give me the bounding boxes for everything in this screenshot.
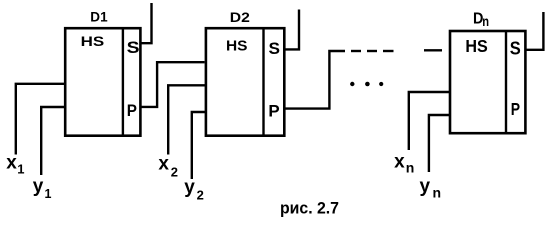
svg-text:y: y <box>184 177 195 198</box>
wire S2 output of D2 (right then up) <box>283 10 299 50</box>
wire input yn to Dn <box>429 115 451 172</box>
svg-text:n: n <box>433 184 442 200</box>
wire dashed borrow line segment 2 <box>367 50 377 52</box>
svg-text:D2: D2 <box>230 9 250 25</box>
svg-text:x: x <box>394 152 405 173</box>
svg-text:HS: HS <box>465 36 487 56</box>
svg-text:HS: HS <box>226 37 248 54</box>
ellipsis dot 3 <box>379 82 383 86</box>
svg-text:S: S <box>269 39 281 58</box>
wire input xn to Dn <box>409 92 451 150</box>
half-subtractor U1 (block D1) box <box>65 28 140 136</box>
half-subtractor Un divider (pin strip) <box>505 30 507 134</box>
svg-text:y: y <box>33 176 44 197</box>
svg-text:1: 1 <box>45 187 52 201</box>
wire S1 output of D1 (right then up) <box>140 3 152 43</box>
ellipsis dot 2 <box>365 82 370 87</box>
svg-text:x: x <box>158 154 169 175</box>
half-subtractor U2 divider (pin strip) <box>262 27 264 136</box>
svg-text:n: n <box>406 160 415 176</box>
ellipsis dot 1 <box>350 82 354 86</box>
svg-text:P: P <box>511 99 520 119</box>
half-subtractor U2 (block D2) box <box>206 28 284 136</box>
wire input x1 to D1 <box>16 84 65 155</box>
svg-text:D1: D1 <box>90 9 108 24</box>
wire dashed borrow line segment 4 (into Dn) <box>424 49 442 51</box>
svg-text:P: P <box>127 101 137 120</box>
svg-text:S: S <box>127 38 140 57</box>
svg-text:y: y <box>420 176 431 197</box>
half-subtractor U1 divider (pin strip) <box>122 27 124 136</box>
svg-text:HS: HS <box>81 34 105 49</box>
wire input y2 to D2 <box>192 112 206 179</box>
half-subtractor Un (block Dn) box <box>450 31 525 133</box>
svg-text:рис. 2.7: рис. 2.7 <box>280 199 339 217</box>
wire Sn output of Dn (right then up) <box>525 12 544 50</box>
wire input y1 to D1 <box>41 107 65 175</box>
svg-text:n: n <box>482 13 489 29</box>
svg-text:2: 2 <box>171 164 178 179</box>
svg-text:1: 1 <box>17 162 24 177</box>
wire input x2 to D2 <box>168 85 206 154</box>
svg-text:x: x <box>6 153 17 174</box>
svg-text:P: P <box>268 102 279 121</box>
wire dashed borrow line segment 3 <box>383 50 394 52</box>
wire P2 output of D2 (right then up to dashed line) <box>283 51 345 109</box>
wire dashed borrow line segment 1 <box>351 50 361 52</box>
svg-text:2: 2 <box>197 188 204 203</box>
wire P1 output of D1 to D2 input <box>140 62 205 107</box>
svg-text:S: S <box>510 38 521 58</box>
